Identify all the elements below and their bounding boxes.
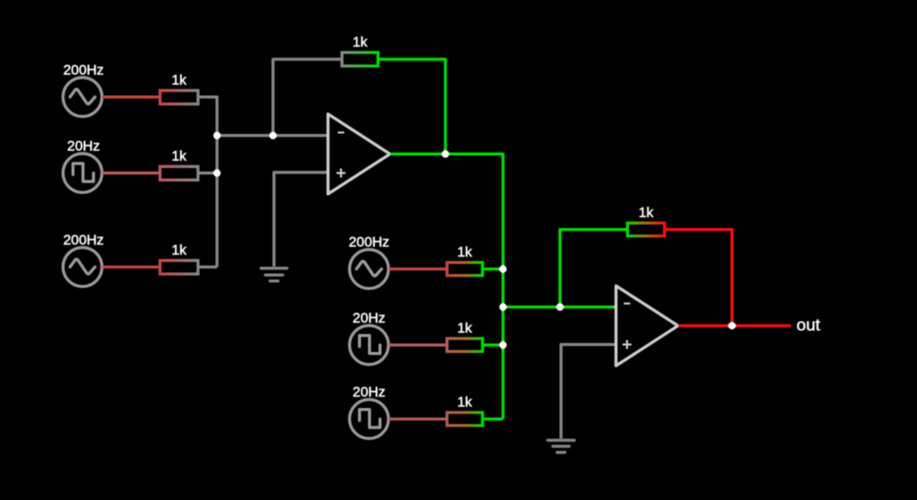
resistor R6 1k <box>447 339 483 352</box>
ground G2 <box>548 440 575 452</box>
wire R2 to bus <box>199 172 217 175</box>
node dot bus1 top junction <box>213 132 220 139</box>
wire feedback up to R8 (green) <box>560 230 626 308</box>
svg-text:1k: 1k <box>172 72 188 88</box>
voltage source V6 20Hz square rail <box>350 400 389 439</box>
voltage source V1 200Hz sine rail <box>63 78 102 117</box>
wire V5 to R6 <box>389 344 446 347</box>
wire R8 to output node (red) <box>666 230 732 326</box>
node dot bus2 R6 junction <box>499 341 506 348</box>
svg-text:1k: 1k <box>639 204 655 220</box>
junction dots <box>213 132 735 349</box>
wire U1 output (green) <box>390 153 445 156</box>
svg-text:1k: 1k <box>172 148 188 164</box>
wire feedback left (node to R4) <box>273 59 341 135</box>
wire bus2 to U2 inverting input (green) <box>503 306 616 309</box>
node dot bus2 R5 junction <box>499 265 506 272</box>
wire R6 to bus2 <box>484 344 503 347</box>
svg-text:out: out <box>797 316 821 335</box>
svg-text:200Hz: 200Hz <box>63 232 103 248</box>
op-amp U2 <box>616 286 678 366</box>
resistor R7 1k <box>447 413 483 426</box>
svg-text:1k: 1k <box>457 244 473 260</box>
svg-text:1k: 1k <box>353 34 369 50</box>
wire V2 to R2 <box>102 172 159 175</box>
svg-text:200Hz: 200Hz <box>349 234 389 250</box>
node dot feedback tap 1 <box>269 132 276 139</box>
node dot bus1 R2 junction <box>213 169 220 176</box>
wire green net to bus2 <box>445 154 503 419</box>
wire R3 to bus <box>199 266 217 269</box>
voltage source V5 20Hz square rail <box>350 326 389 365</box>
svg-text:1k: 1k <box>457 394 473 410</box>
wire U1 noninverting input to ground <box>274 172 328 266</box>
wire R1 to bus (bus1 vertical) <box>199 97 217 267</box>
svg-text:200Hz: 200Hz <box>63 62 103 78</box>
svg-text:1k: 1k <box>457 320 473 336</box>
wire U2 output to out (red) <box>678 324 791 327</box>
resistor R1 1k <box>160 91 198 105</box>
op-amp U1 <box>328 114 390 194</box>
resistor R5 1k <box>447 263 483 276</box>
svg-text:20Hz: 20Hz <box>67 138 100 154</box>
resistor R2 1k <box>160 167 198 181</box>
wire V4 to R5 <box>389 268 446 271</box>
resistor R4 1k feedback <box>342 53 378 67</box>
wire V1 to R1 <box>102 96 159 99</box>
U2 minus marking <box>624 303 630 305</box>
resistor R8 1k feedback <box>628 223 665 236</box>
svg-text:20Hz: 20Hz <box>353 310 386 326</box>
node dot U1 output junction <box>442 150 449 157</box>
voltage source V2 20Hz square rail <box>63 154 102 193</box>
U1 minus marking <box>338 132 344 134</box>
voltage source V4 200Hz sine rail <box>350 250 389 289</box>
wire bus1 to U1 inverting input <box>217 134 328 137</box>
wire V6 to R7 <box>389 418 446 421</box>
node dot bus2 U2 branch <box>499 303 506 310</box>
svg-text:1k: 1k <box>172 242 188 258</box>
node dot feedback tap 2 <box>556 303 563 310</box>
wire U2 noninverting input to ground <box>561 345 616 439</box>
U2 plus marking <box>623 340 632 349</box>
node dot output junction <box>728 322 735 329</box>
ground G1 <box>261 268 287 281</box>
wire R4 to U1 output (green) <box>380 59 446 154</box>
voltage source V3 200Hz sine rail <box>63 248 102 287</box>
U1 plus marking <box>337 169 346 178</box>
resistor R3 1k <box>160 261 198 275</box>
svg-text:20Hz: 20Hz <box>353 384 386 400</box>
wire R7 to bus2 <box>484 418 503 421</box>
wire V3 to R3 <box>102 266 159 269</box>
wire R5 to bus2 <box>484 268 503 271</box>
